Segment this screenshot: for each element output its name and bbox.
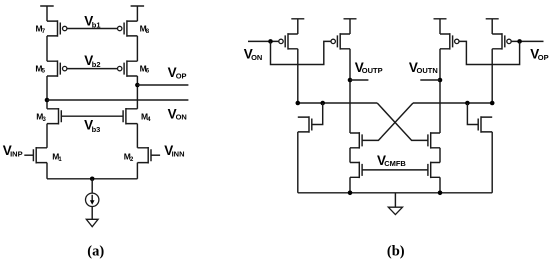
- wire N1 source down: [297, 132, 299, 193]
- svg-text:6: 6: [146, 69, 150, 75]
- wire VOUTP stub: [350, 79, 368, 81]
- wire right column M8-M6: [136, 36, 138, 61]
- svg-text:4: 4: [147, 117, 151, 123]
- wire VINP input stub: [24, 154, 33, 156]
- node right diode gate junction: [465, 101, 470, 106]
- transistor M2: [137, 147, 151, 164]
- svg-text:OUTN: OUTN: [417, 66, 438, 75]
- node tail junction: [90, 177, 95, 182]
- wire VOP output line: [137, 84, 188, 86]
- svg-text:8: 8: [146, 29, 150, 35]
- wire N3-N4 link: [349, 148, 351, 163]
- node P1 drain junction: [296, 101, 301, 106]
- wire Vb3 gate bus: [61, 115, 123, 117]
- svg-text:OP: OP: [538, 53, 549, 62]
- node VON junction: [45, 98, 50, 103]
- svg-text:OP: OP: [176, 71, 187, 80]
- wire right column M6 drain to node VOP: [136, 76, 138, 109]
- wire right column M4-M2: [136, 124, 138, 148]
- transistor M6: [124, 60, 137, 77]
- node VOUTN junction: [438, 78, 443, 83]
- svg-text:7: 7: [42, 29, 46, 35]
- wire M2 source to tail: [136, 163, 138, 179]
- wire P4 drain down: [491, 49, 493, 103]
- svg-text:3: 3: [43, 117, 47, 123]
- svg-text:b3: b3: [92, 125, 101, 134]
- wire tail bus: [47, 178, 137, 180]
- ground (a): [86, 219, 98, 226]
- current source I1: [86, 193, 99, 206]
- node P4 drain junction: [490, 101, 495, 106]
- node VON gate junction: [268, 39, 273, 44]
- ground (b): [388, 207, 402, 214]
- svg-text:INN: INN: [172, 149, 185, 158]
- wire current source to ground: [91, 207, 93, 220]
- wire left column M3-M1: [46, 124, 48, 148]
- transistor N6 lower centre right: [428, 162, 440, 179]
- transistor M4: [123, 108, 137, 125]
- wire tail to current source: [91, 179, 93, 193]
- wire VINN input stub: [151, 154, 160, 156]
- wire left mirror node bus: [298, 102, 377, 104]
- wire VOUTN stub: [420, 79, 440, 81]
- node VOP gate junction: [517, 39, 522, 44]
- svg-text:(b): (b): [387, 243, 405, 259]
- wire P1 drain down: [297, 49, 299, 103]
- svg-text:5: 5: [42, 69, 46, 75]
- wire VOP input: [511, 40, 543, 42]
- wire ground stem (b): [394, 193, 396, 207]
- wire left column M5 drain to node VON: [46, 76, 48, 109]
- wire cross-couple diagonal right-to-left: [362, 103, 413, 140]
- transistor P4: [492, 33, 505, 50]
- VDD rail 2 (b): [344, 19, 357, 34]
- svg-text:b2: b2: [92, 60, 101, 69]
- transistor P3: [440, 33, 453, 50]
- svg-text:b1: b1: [92, 20, 101, 29]
- transistor M7: [47, 20, 60, 37]
- VDD rail left (a): [40, 6, 54, 21]
- wire VON input: [248, 40, 279, 42]
- wire VOUTP column: [349, 49, 351, 133]
- transistor M1: [33, 147, 47, 164]
- wire N2 source down: [491, 132, 493, 193]
- transistor N1 outer left: [298, 116, 312, 133]
- wire VON to P2 gate link: [271, 41, 332, 64]
- svg-text:OUTP: OUTP: [362, 66, 383, 75]
- svg-text:CMFB: CMFB: [384, 159, 406, 168]
- wire cross-couple diagonal left-to-right: [377, 103, 428, 140]
- svg-text:ON: ON: [176, 113, 187, 122]
- VDD rail 1 (b): [291, 19, 304, 34]
- transistor N4 lower centre left: [350, 162, 362, 179]
- transistor M8: [124, 20, 137, 37]
- node right tail junction: [438, 191, 443, 196]
- wire N1 gate link: [312, 103, 323, 125]
- svg-text:2: 2: [130, 157, 134, 163]
- wire VOUTN column: [439, 49, 441, 133]
- transistor M3: [47, 108, 61, 125]
- wire VON output line: [47, 99, 188, 101]
- wire N2 gate link: [467, 103, 478, 125]
- node VOP junction: [135, 83, 140, 88]
- wire left column M7-M5: [46, 36, 48, 61]
- wire VOP to P3 gate link: [459, 41, 520, 64]
- transistor N3 upper centre left: [350, 132, 362, 149]
- transistor N5 upper centre right: [428, 132, 440, 149]
- VDD rail 3 (b): [434, 19, 447, 34]
- wire N5-N6 link: [439, 148, 441, 163]
- wire right mirror node bus: [413, 102, 492, 104]
- wire VCMFB gate bus: [362, 169, 428, 171]
- transistor N2 outer right: [478, 116, 492, 133]
- wire Vb2 gate bus: [67, 68, 118, 70]
- VDD rail right (a): [131, 6, 145, 21]
- transistor P1: [285, 33, 298, 50]
- wire Vb1 gate bus: [67, 28, 118, 30]
- wire N4 source down: [349, 177, 351, 193]
- transistor P2: [337, 33, 350, 50]
- node left diode gate junction: [320, 101, 325, 106]
- svg-text:INP: INP: [10, 149, 23, 158]
- wire N6 source down: [439, 177, 441, 193]
- node left tail junction: [348, 191, 353, 196]
- VDD rail 4 (b): [486, 19, 499, 34]
- wire ground bus (b): [298, 192, 492, 194]
- svg-text:(a): (a): [87, 243, 104, 259]
- svg-text:1: 1: [58, 157, 62, 163]
- transistor M5: [47, 60, 60, 77]
- node VOUTP junction: [348, 78, 353, 83]
- wire M1 source to tail: [46, 163, 48, 179]
- svg-text:ON: ON: [251, 53, 262, 62]
